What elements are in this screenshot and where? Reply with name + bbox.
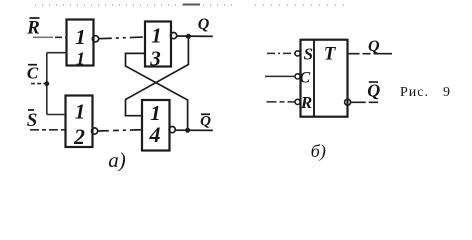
svg-text:Q: Q bbox=[200, 113, 211, 129]
svg-text:а): а) bbox=[108, 148, 126, 172]
svg-text:б): б) bbox=[311, 141, 326, 162]
svg-text:S: S bbox=[27, 110, 38, 131]
svg-text:C: C bbox=[299, 69, 310, 86]
svg-text:Q: Q bbox=[367, 80, 380, 100]
svg-text:C: C bbox=[27, 64, 39, 83]
svg-text:Q: Q bbox=[198, 16, 210, 33]
svg-text:1: 1 bbox=[76, 49, 85, 69]
svg-text:9: 9 bbox=[443, 85, 450, 100]
svg-text:Рис.: Рис. bbox=[400, 85, 429, 100]
svg-text:T: T bbox=[324, 44, 337, 65]
svg-text:S: S bbox=[304, 45, 313, 64]
svg-text:1: 1 bbox=[151, 24, 162, 48]
svg-text:R: R bbox=[300, 93, 312, 112]
svg-text:R: R bbox=[26, 18, 40, 39]
svg-text:4: 4 bbox=[149, 122, 161, 147]
svg-text:3: 3 bbox=[149, 47, 161, 71]
svg-text:1: 1 bbox=[75, 25, 86, 49]
svg-text:Q: Q bbox=[368, 38, 380, 55]
svg-text:1: 1 bbox=[75, 100, 86, 124]
svg-text:2: 2 bbox=[73, 124, 85, 149]
